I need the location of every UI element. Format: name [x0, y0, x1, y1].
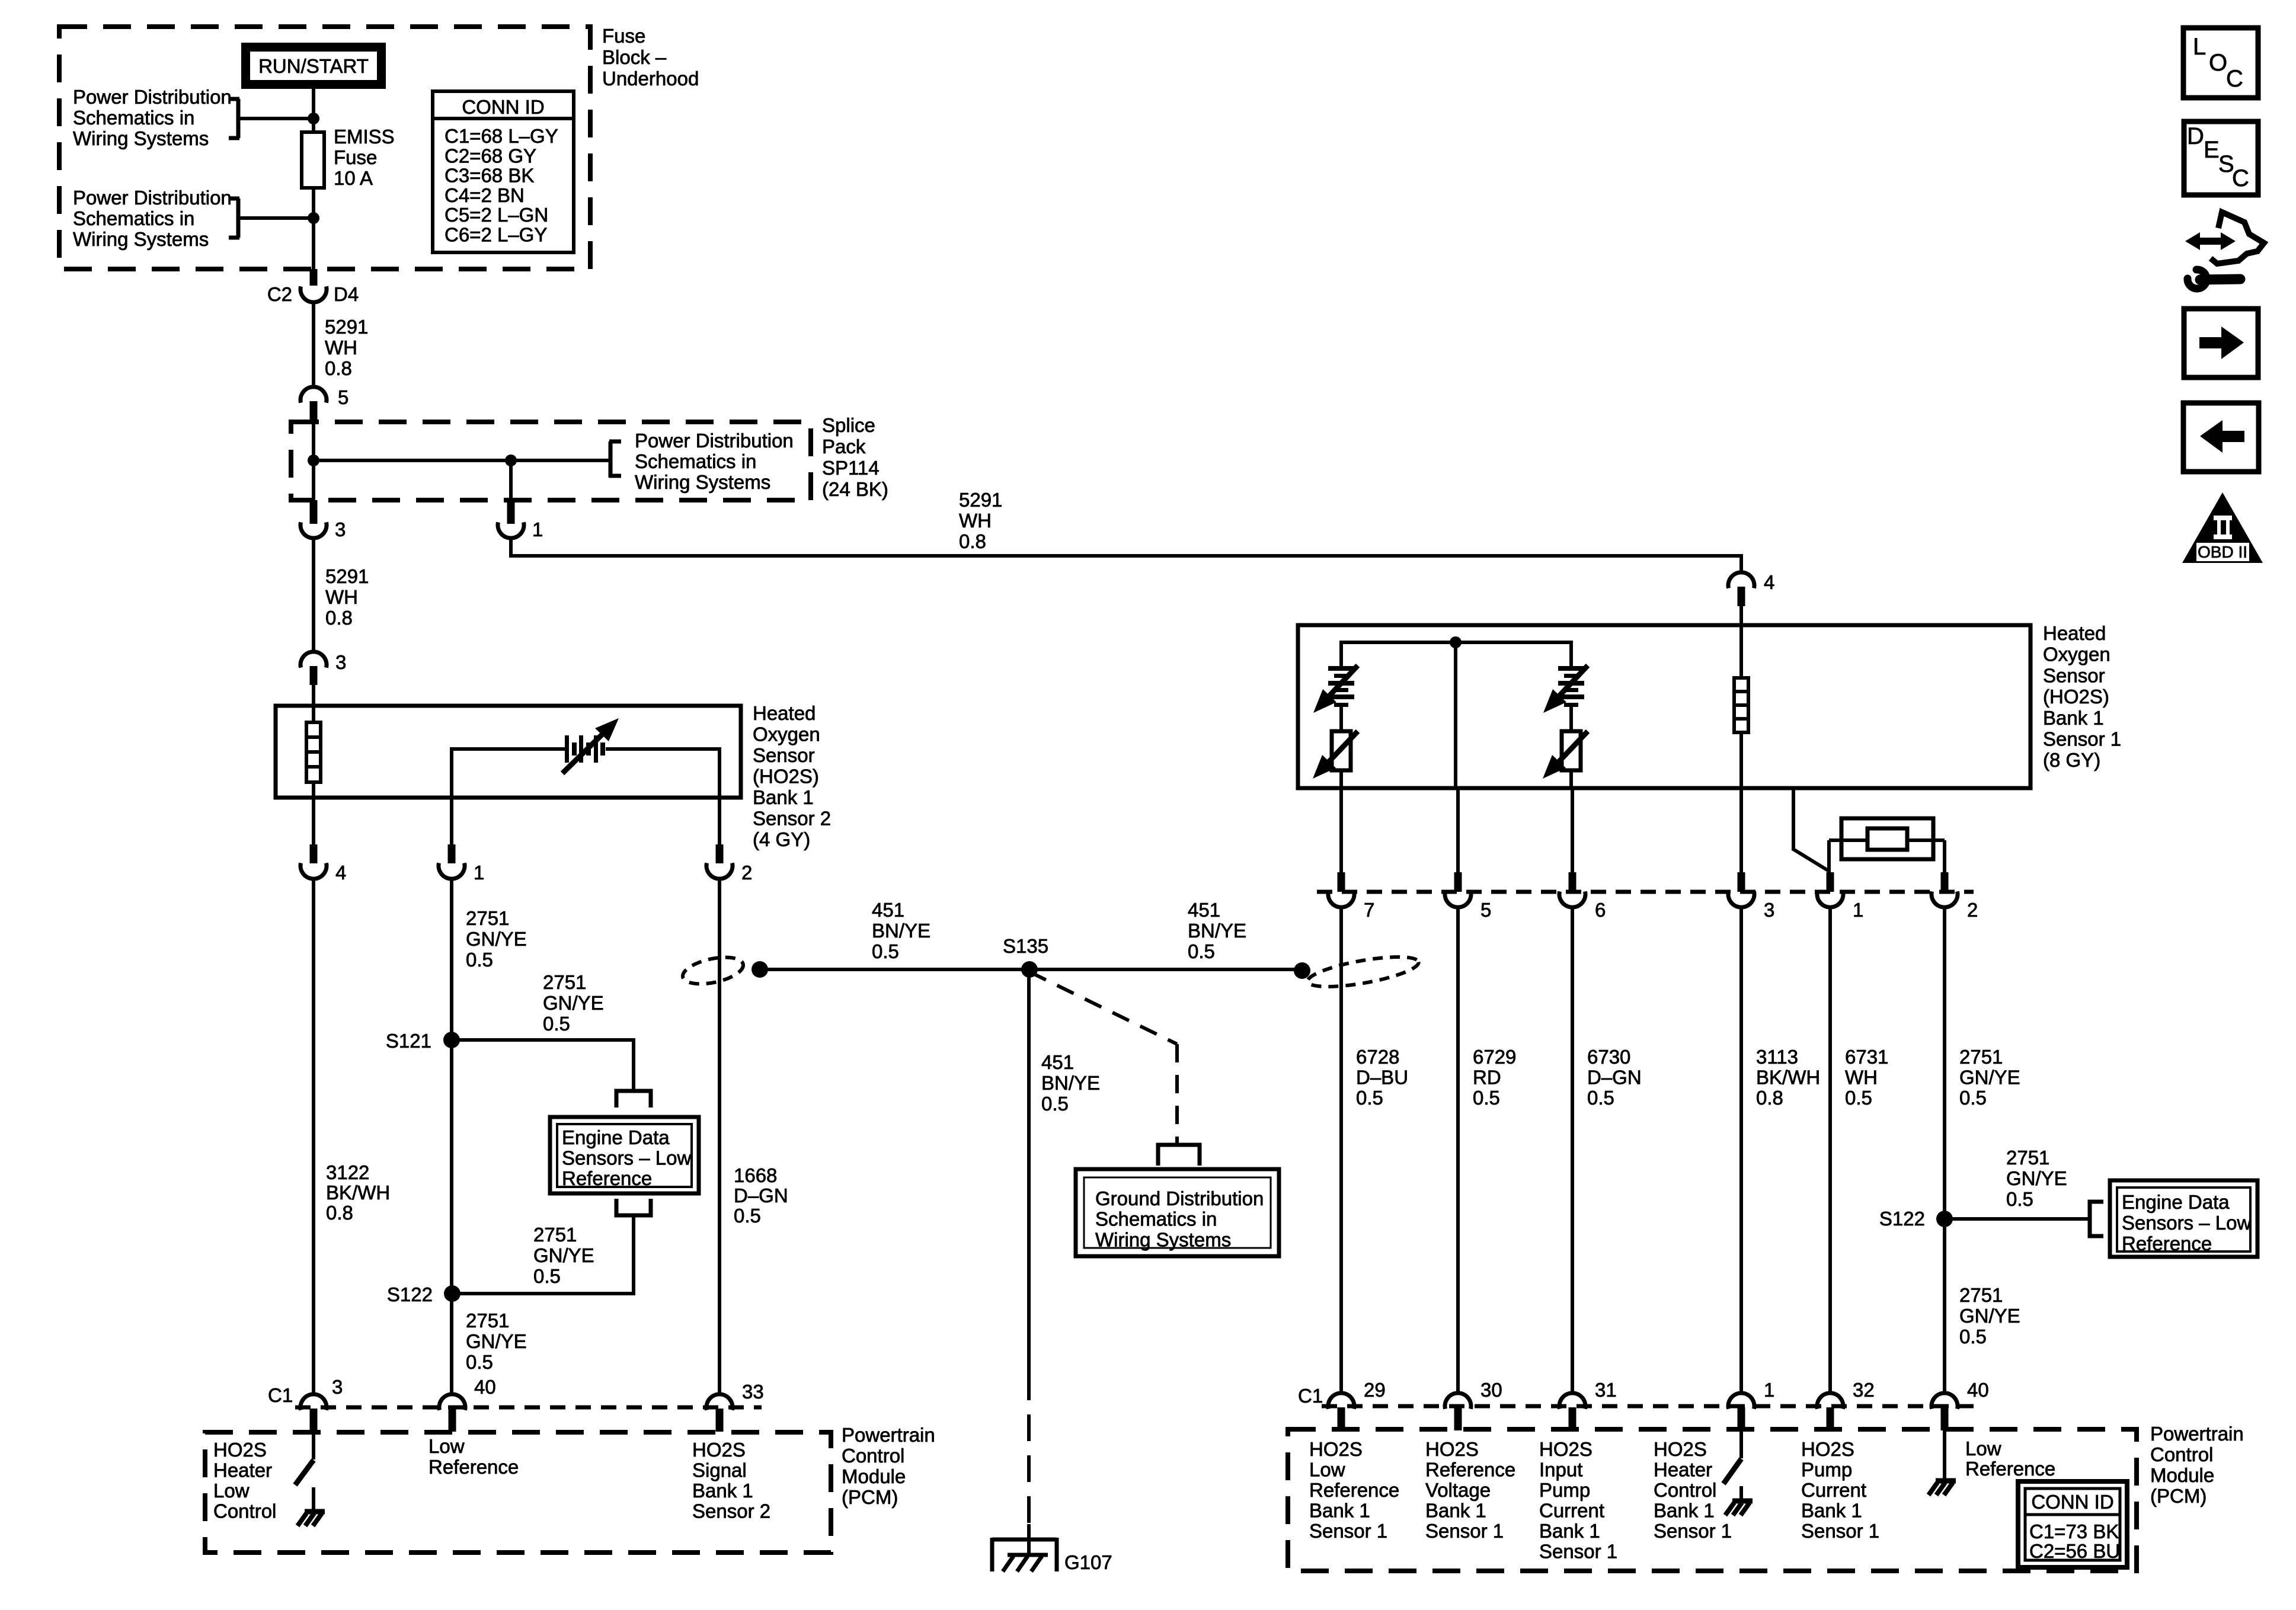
- svg-text:2751: 2751: [466, 1310, 509, 1331]
- label: 3 (left PCM pin): [332, 1376, 343, 1398]
- svg-text:Reference: Reference: [1309, 1479, 1399, 1501]
- svg-text:WH: WH: [959, 510, 992, 532]
- pin 3 stub (HO2S B1S2): [310, 666, 318, 685]
- fuse holder RUN/START box: [241, 43, 386, 89]
- wire 2751 GN/YE 0.5 (sensor2 low reference): [450, 879, 453, 1394]
- svg-text:6: 6: [1595, 899, 1606, 921]
- powertrain control module dashed enclosure (left): [205, 1432, 831, 1553]
- sensor cell with variable resistor (sensor 1, cavity 6): [1543, 665, 1588, 788]
- svg-text:C: C: [2226, 66, 2243, 92]
- pin 4 stub (HO2S B1S1): [1738, 587, 1745, 606]
- wire: S122 branch to engine data sensors (right): [1945, 1217, 2089, 1221]
- svg-text:Bank 1: Bank 1: [1654, 1500, 1715, 1522]
- svg-text:0.5: 0.5: [466, 1351, 493, 1373]
- label: 4 (sensor 2): [335, 862, 346, 884]
- connector cavity 1 (sensor 2): [439, 863, 465, 879]
- label: HO2S Signal Bank 1 Sensor 2: [692, 1439, 770, 1522]
- svg-text:S122: S122: [387, 1283, 433, 1305]
- switch: HO2S heater low control driver: [295, 1432, 314, 1510]
- connector C2 cavity D4: [300, 286, 327, 302]
- HO2S Bank 1 Sensor 2 enclosure: [276, 706, 741, 798]
- svg-text:HO2S: HO2S: [1654, 1438, 1707, 1460]
- svg-text:RUN/START: RUN/START: [258, 55, 369, 77]
- label: 6729 RD 0.5: [1473, 1046, 1516, 1109]
- wire 6731 WH 0.5 (to PCM pin 32): [1828, 907, 1832, 1394]
- label: 31 (right PCM pin): [1595, 1379, 1617, 1401]
- svg-text:Wiring Systems: Wiring Systems: [73, 127, 209, 149]
- svg-text:(HO2S): (HO2S): [2043, 686, 2109, 708]
- node: junction at lower power feed: [308, 212, 319, 224]
- label: 2751 GN/YE 0.5 (right branch): [2006, 1147, 2067, 1210]
- svg-text:Engine Data: Engine Data: [562, 1126, 670, 1148]
- wire: pin 4 into sensor body: [1739, 606, 1743, 625]
- bracket: power distribution tap (splice): [609, 441, 621, 478]
- node: splice junction left: [308, 454, 319, 466]
- svg-text:WH: WH: [1845, 1067, 1878, 1089]
- ground G107: [992, 1538, 1057, 1571]
- label: 6728 D–BU 0.5: [1356, 1046, 1408, 1109]
- svg-text:(24 BK): (24 BK): [822, 478, 888, 500]
- label: 5291 WH 0.8 (long run): [959, 489, 1002, 552]
- pin 32 stub (right PCM): [1827, 1407, 1834, 1430]
- svg-text:Powertrain: Powertrain: [842, 1424, 935, 1446]
- svg-text:Sensor 1: Sensor 1: [2043, 728, 2121, 750]
- svg-text:2751: 2751: [543, 971, 586, 993]
- svg-text:HO2S: HO2S: [1425, 1438, 1479, 1460]
- pin 5 stub: [310, 401, 318, 422]
- connector HO2S B1S2 cavity 3: [300, 652, 327, 668]
- label: Powertrain Control Module PCM (right): [2150, 1423, 2244, 1507]
- svg-text:C1=73 BK: C1=73 BK: [2029, 1521, 2119, 1542]
- label: HO2S Heater Control Bank 1 Sensor 1: [1654, 1438, 1732, 1542]
- label: Fuse Block - Underhood: [602, 25, 699, 89]
- svg-text:0.5: 0.5: [543, 1013, 570, 1035]
- svg-text:10 A: 10 A: [334, 167, 373, 189]
- label: Heated Oxygen Sensor (HO2S) Bank 1 Sensor 1 (8 GY): [2043, 622, 2121, 771]
- svg-text:6731: 6731: [1845, 1046, 1888, 1068]
- svg-text:451: 451: [872, 899, 904, 921]
- wire 6729 RD 0.5 (to PCM pin 30): [1456, 907, 1460, 1394]
- svg-text:Schematics in: Schematics in: [73, 107, 194, 129]
- label: 1 (splice): [532, 518, 543, 540]
- wire: RUN/START to fuse EMISS: [312, 89, 315, 132]
- svg-text:40: 40: [1967, 1379, 1989, 1401]
- svg-text:Sensors – Low: Sensors – Low: [562, 1147, 691, 1169]
- wire: pin 40 to internal ground: [1943, 1429, 1946, 1480]
- connector cavity 40 (left PCM): [439, 1394, 465, 1410]
- wire 451 BN/YE 0.5 (S135 to G107): [1027, 969, 1031, 1374]
- svg-text:D–GN: D–GN: [734, 1185, 788, 1206]
- connector HO2S B1S1 cavity 4: [1728, 572, 1754, 588]
- connector cavity 4 (sensor 2): [300, 863, 327, 879]
- wire 451 BN/YE 0.5 (right half): [1029, 968, 1302, 971]
- svg-text:Control: Control: [1654, 1479, 1716, 1501]
- svg-text:Sensor 1: Sensor 1: [1425, 1520, 1504, 1542]
- svg-text:3: 3: [332, 1376, 343, 1398]
- label: 2751 GN/YE 0.5 (below sensor 2): [466, 907, 527, 971]
- svg-text:D4: D4: [334, 283, 359, 305]
- svg-text:GN/YE: GN/YE: [466, 928, 527, 950]
- label: S121: [386, 1030, 431, 1052]
- pin D4 stub (fuse block C2): [310, 269, 318, 286]
- wire 1668 D-GN 0.5 (sensor 2 signal): [718, 879, 721, 1394]
- svg-text:HO2S: HO2S: [692, 1439, 746, 1461]
- svg-text:Low: Low: [1309, 1459, 1345, 1481]
- svg-text:C1: C1: [1298, 1385, 1323, 1407]
- wire: sensor 1 cavity 3 lead: [1739, 788, 1743, 873]
- svg-text:GN/YE: GN/YE: [2006, 1167, 2067, 1189]
- wire: bus junction to cavity 5: [1454, 642, 1457, 788]
- svg-text:Control: Control: [842, 1445, 904, 1467]
- svg-text:2: 2: [1967, 899, 1978, 921]
- pin 3 stub (left PCM): [310, 1409, 318, 1432]
- svg-text:Power Distribution: Power Distribution: [635, 430, 794, 452]
- label: 5 (sensor 1): [1480, 899, 1491, 921]
- label: C2: [267, 283, 292, 305]
- svg-text:Low: Low: [1965, 1438, 2001, 1459]
- splice crimp (left, dashed ellipse): [680, 953, 746, 989]
- svg-text:Heater: Heater: [213, 1459, 272, 1481]
- pin 1 stub (splice): [507, 500, 515, 524]
- svg-text:3: 3: [335, 518, 346, 540]
- svg-text:Control: Control: [213, 1500, 276, 1522]
- splice pack SP114 dashed enclosure: [291, 422, 811, 500]
- wire: S121 branch to engine data sensors: [452, 1038, 634, 1089]
- label: Power Distribution Schematics in Wiring Systems (upper): [73, 86, 232, 149]
- svg-text:WH: WH: [325, 586, 358, 608]
- label: 3 (sensor 1): [1764, 899, 1774, 921]
- svg-text:(4 GY): (4 GY): [753, 828, 810, 850]
- svg-text:HO2S: HO2S: [1309, 1438, 1363, 1460]
- svg-text:1: 1: [1853, 899, 1863, 921]
- label: 1668 D-GN 0.5: [734, 1164, 788, 1227]
- wire: fuse EMISS to fuse block exit: [312, 188, 315, 269]
- wire: splice pack internal vertical: [312, 422, 315, 500]
- label: 32 (right PCM pin): [1853, 1379, 1875, 1401]
- wire 5291 WH 0.8 (splice to HO2S bank1 sensor2): [312, 538, 315, 652]
- svg-text:C2=68 GY: C2=68 GY: [445, 145, 536, 167]
- svg-text:Block –: Block –: [602, 46, 667, 68]
- svg-text:6728: 6728: [1356, 1046, 1399, 1068]
- svg-text:Sensor 1: Sensor 1: [1801, 1520, 1879, 1542]
- label: 2 (sensor 2): [741, 862, 752, 884]
- pin stub (sensor 1 cavity 1): [1827, 872, 1834, 892]
- svg-text:0.5: 0.5: [1587, 1087, 1614, 1109]
- svg-text:Ground Distribution: Ground Distribution: [1095, 1188, 1264, 1209]
- svg-text:GN/YE: GN/YE: [1959, 1067, 2020, 1089]
- label: S122: [387, 1283, 433, 1305]
- svg-text:GN/YE: GN/YE: [543, 992, 604, 1014]
- connector cavity 3 (splice): [300, 522, 327, 538]
- engine data sensors - low reference box (right): [2110, 1180, 2257, 1257]
- svg-text:O: O: [2209, 50, 2227, 76]
- svg-text:Sensor 1: Sensor 1: [1654, 1520, 1732, 1542]
- sensor 1 connector row (dotted): [1317, 890, 1974, 894]
- svg-text:3: 3: [335, 651, 346, 673]
- svg-text:1: 1: [474, 862, 484, 884]
- svg-text:Reference: Reference: [1425, 1459, 1515, 1481]
- svg-text:Sensor 1: Sensor 1: [1309, 1520, 1387, 1542]
- wire 5291 WH 0.8 (splice to HO2S bank1 sensor1): [509, 538, 1743, 572]
- splice crimp (right, dashed ellipse): [1306, 951, 1421, 993]
- svg-text:31: 31: [1595, 1379, 1617, 1401]
- svg-text:7: 7: [1364, 899, 1374, 921]
- pin stub (sensor 1 cavity 3): [1738, 872, 1745, 892]
- label: S122 (right): [1879, 1208, 1925, 1230]
- svg-text:Sensors – Low: Sensors – Low: [2122, 1212, 2251, 1234]
- svg-text:Oxygen: Oxygen: [753, 724, 820, 745]
- svg-text:5: 5: [338, 386, 348, 408]
- svg-text:2751: 2751: [1959, 1046, 2003, 1068]
- svg-text:29: 29: [1364, 1379, 1386, 1401]
- svg-text:4: 4: [1764, 571, 1774, 593]
- svg-text:L: L: [2193, 34, 2206, 60]
- svg-text:2751: 2751: [1959, 1284, 2003, 1306]
- svg-text:30: 30: [1480, 1379, 1502, 1401]
- wire 3122 BK/WH 0.8 (heater low control): [312, 879, 315, 1394]
- svg-text:Bank 1: Bank 1: [692, 1480, 753, 1502]
- svg-text:Sensor: Sensor: [753, 744, 815, 766]
- svg-text:451: 451: [1188, 899, 1220, 921]
- svg-text:Oxygen: Oxygen: [2043, 644, 2110, 665]
- label: 451 BN/YE 0.5 (right): [1188, 899, 1246, 962]
- right PCM connector row (dotted): [1322, 1404, 1974, 1409]
- powertrain control module dashed enclosure (right): [1288, 1429, 2137, 1571]
- label: 7 (sensor 1): [1364, 899, 1374, 921]
- connector cavity 33 (left PCM): [706, 1394, 733, 1410]
- pin 1 stub (right PCM): [1738, 1407, 1745, 1430]
- svg-text:Heated: Heated: [2043, 622, 2106, 644]
- bracket: engine data sensors feed (right): [2090, 1202, 2103, 1236]
- pin 4 stub (sensor 2 heater low): [310, 798, 318, 863]
- connector cavity 1 (right PCM): [1728, 1393, 1754, 1409]
- ground distribution schematics box: [1076, 1169, 1279, 1256]
- label: Low Reference (right PCM): [1965, 1438, 2055, 1480]
- node: splice junction right: [505, 454, 517, 466]
- fuse EMISS 10 A: [302, 132, 324, 188]
- svg-text:BK/WH: BK/WH: [1756, 1067, 1820, 1089]
- connector cavity 2 (sensor 1): [1932, 891, 1958, 907]
- pin stub (sensor 1 cavity 6): [1569, 872, 1576, 892]
- svg-text:BN/YE: BN/YE: [872, 920, 930, 942]
- HO2S Bank 1 Sensor 1 enclosure: [1298, 625, 2030, 788]
- label: Power Distribution Schematics in Wiring Systems (lower): [73, 187, 232, 250]
- label: HO2S Heater Low Control: [213, 1439, 276, 1522]
- svg-text:C2=56 BU: C2=56 BU: [2029, 1540, 2120, 1562]
- svg-text:GN/YE: GN/YE: [533, 1244, 594, 1266]
- label: 2 (sensor 1): [1967, 899, 1978, 921]
- svg-text:0.8: 0.8: [326, 1202, 353, 1224]
- left PCM connector row (dotted): [295, 1406, 762, 1410]
- svg-text:D–BU: D–BU: [1356, 1067, 1408, 1089]
- svg-text:GN/YE: GN/YE: [466, 1330, 527, 1352]
- svg-text:0.5: 0.5: [1959, 1326, 1987, 1347]
- node S122 (right): [1936, 1211, 1953, 1227]
- svg-text:C6=2 L–GY: C6=2 L–GY: [445, 224, 547, 246]
- label: 2751 GN/YE 0.5: [1959, 1046, 2020, 1109]
- svg-text:EMISS: EMISS: [334, 126, 395, 148]
- connector cavity 6 (sensor 1): [1559, 891, 1585, 907]
- svg-text:0.5: 0.5: [2006, 1188, 2033, 1210]
- icon: next arrow box: [2184, 309, 2258, 377]
- switch: HO2S heater control driver (right): [1723, 1429, 1741, 1499]
- svg-text:Engine Data: Engine Data: [2122, 1191, 2230, 1213]
- label: 30 (right PCM pin): [1480, 1379, 1502, 1401]
- svg-text:33: 33: [742, 1381, 764, 1403]
- svg-text:0.8: 0.8: [325, 357, 352, 379]
- label: EMISS Fuse 10 A: [334, 126, 395, 189]
- icon: previous arrow box: [2183, 403, 2259, 472]
- svg-text:S121: S121: [386, 1030, 431, 1052]
- label: 1 (right PCM pin): [1764, 1379, 1774, 1401]
- svg-text:Reference: Reference: [1965, 1458, 2055, 1480]
- bracket: engine data sensors feed (top): [616, 1091, 651, 1108]
- svg-text:C1: C1: [268, 1384, 293, 1406]
- pin 40 stub (left PCM): [449, 1409, 456, 1432]
- icon: DESC box: [2184, 121, 2258, 195]
- svg-text:Low: Low: [213, 1480, 250, 1502]
- pin 33 stub (left PCM): [716, 1409, 724, 1432]
- svg-text:2751: 2751: [2006, 1147, 2049, 1169]
- svg-text:Bank 1: Bank 1: [1801, 1500, 1862, 1522]
- svg-text:451: 451: [1041, 1051, 1074, 1073]
- wire 2751 GN/YE 0.5 (to PCM pin 40): [1943, 907, 1946, 1394]
- label: Heated Oxygen Sensor (HO2S) Bank 1 Sensor 2 (4 GY): [753, 702, 831, 850]
- svg-text:C1=68 L–GY: C1=68 L–GY: [445, 125, 558, 147]
- svg-text:3113: 3113: [1756, 1046, 1798, 1068]
- wire: upper tap to main feed: [238, 117, 314, 120]
- wire 6730 D–GN 0.5 (to PCM pin 31): [1571, 907, 1574, 1394]
- connector cavity 3 (left PCM): [300, 1394, 327, 1410]
- svg-text:3122: 3122: [326, 1161, 369, 1183]
- wire: splice bus: [314, 459, 609, 462]
- node: crimp junction left: [752, 961, 768, 978]
- svg-text:Sensor: Sensor: [2043, 664, 2105, 686]
- bracket: ground distribution feed: [1158, 1145, 1200, 1166]
- label: C1 (right PCM): [1298, 1385, 1323, 1407]
- icon: OBD II triangle: [2182, 492, 2263, 563]
- label: 5291 WH 0.8 (upper): [325, 316, 368, 379]
- svg-text:0.5: 0.5: [872, 940, 899, 962]
- svg-text:Pump: Pump: [1801, 1459, 1852, 1481]
- svg-text:Pump: Pump: [1539, 1479, 1590, 1501]
- node S121: [443, 1032, 460, 1048]
- connector cavity 30 (right PCM): [1445, 1393, 1471, 1409]
- label: 5291 WH 0.8 (left branch): [325, 565, 369, 629]
- svg-text:Power Distribution: Power Distribution: [73, 187, 232, 209]
- svg-text:6729: 6729: [1473, 1046, 1516, 1068]
- svg-text:Pack: Pack: [822, 436, 866, 457]
- label: 3113 BK/WH 0.8: [1756, 1046, 1820, 1109]
- bracket: lower power distribution tap: [229, 199, 239, 238]
- svg-text:Power Distribution: Power Distribution: [73, 86, 232, 108]
- pin 30 stub (right PCM): [1454, 1407, 1462, 1430]
- wire: lower tap to main feed: [238, 216, 314, 220]
- label: 29 (right PCM pin): [1364, 1379, 1386, 1401]
- wire 3113 BK/WH 0.8 (to PCM pin 1): [1739, 907, 1743, 1394]
- label: Power Distribution Schematics in Wiring Systems (splice): [635, 430, 794, 493]
- svg-text:0.8: 0.8: [959, 530, 986, 552]
- label: Powertrain Control Module PCM (left): [842, 1424, 935, 1508]
- engine data sensors - low reference box (left): [550, 1117, 699, 1193]
- pin 40 stub (right PCM): [1941, 1407, 1949, 1430]
- wire 6728 D–BU 0.5 (to PCM pin 29): [1339, 907, 1343, 1394]
- pin 31 stub (right PCM): [1569, 1407, 1576, 1430]
- svg-text:0.5: 0.5: [1188, 940, 1215, 962]
- heater element (pin strip) HO2S B1S2: [306, 706, 321, 798]
- svg-text:Module: Module: [842, 1465, 906, 1487]
- connector cavity 1 (splice): [498, 522, 524, 538]
- pin 29 stub (right PCM): [1338, 1407, 1345, 1430]
- svg-text:Sensor 2: Sensor 2: [692, 1500, 770, 1522]
- label: S135: [1003, 935, 1048, 957]
- pin 2 stub (sensor 2 signal): [716, 798, 724, 863]
- svg-text:Fuse: Fuse: [334, 146, 377, 168]
- svg-text:HO2S: HO2S: [1539, 1438, 1593, 1460]
- svg-text:Bank 1: Bank 1: [1539, 1520, 1600, 1542]
- svg-text:GN/YE: GN/YE: [1959, 1305, 2020, 1327]
- connector splice pack cavity 5: [300, 387, 327, 403]
- svg-text:2751: 2751: [466, 907, 509, 929]
- connector cavity 40 (right PCM): [1932, 1393, 1958, 1409]
- label: HO2S Reference Voltage Bank 1 Sensor 1: [1425, 1438, 1515, 1542]
- svg-text:HO2S: HO2S: [213, 1439, 267, 1461]
- svg-text:RD: RD: [1473, 1067, 1501, 1089]
- connector cavity 32 (right PCM): [1817, 1393, 1843, 1409]
- wire: sensor 1 internal bus: [1341, 641, 1571, 666]
- svg-text:6730: 6730: [1587, 1046, 1630, 1068]
- bracket: engine data sensors feed (bottom): [616, 1199, 651, 1215]
- label: D4: [334, 283, 359, 305]
- pin 1 stub (sensor 2 low ref): [448, 798, 456, 863]
- svg-text:0.5: 0.5: [1041, 1093, 1069, 1115]
- svg-text:1668: 1668: [734, 1164, 777, 1186]
- ground (right PCM internal, heater): [1725, 1501, 1753, 1515]
- pin 3 stub (splice): [310, 500, 318, 524]
- svg-text:0.5: 0.5: [1845, 1087, 1872, 1109]
- svg-text:BN/YE: BN/YE: [1188, 920, 1246, 942]
- label: HO2S Low Reference Bank 1 Sensor 1: [1309, 1438, 1399, 1542]
- svg-text:C5=2 L–GN: C5=2 L–GN: [445, 204, 548, 226]
- svg-text:Current: Current: [1801, 1479, 1866, 1501]
- svg-text:SP114: SP114: [822, 457, 880, 479]
- icon: LOC box: [2183, 28, 2258, 98]
- node S135: [1021, 961, 1038, 978]
- svg-text:C3=68 BK: C3=68 BK: [445, 165, 534, 187]
- svg-text:C: C: [2232, 165, 2249, 191]
- svg-text:Sensor 2: Sensor 2: [753, 808, 831, 830]
- svg-text:Heated: Heated: [753, 702, 816, 724]
- connector table CONN ID (right PCM): [2018, 1481, 2127, 1567]
- label: 4 (HO2S B1S1): [1764, 571, 1774, 593]
- svg-text:(HO2S): (HO2S): [753, 766, 819, 788]
- svg-text:5291: 5291: [325, 316, 368, 338]
- label: G107: [1064, 1551, 1112, 1573]
- svg-text:S135: S135: [1003, 935, 1048, 957]
- svg-text:Underhood: Underhood: [602, 68, 699, 89]
- svg-text:Splice: Splice: [822, 414, 875, 436]
- svg-text:WH: WH: [325, 337, 357, 359]
- svg-text:Voltage: Voltage: [1425, 1479, 1491, 1501]
- connector table CONN ID (fuse block): [433, 91, 574, 252]
- svg-text:Bank 1: Bank 1: [1425, 1500, 1486, 1522]
- pin stub (sensor 1 cavity 5): [1454, 872, 1462, 892]
- label: HO2S Pump Current Bank 1 Sensor 1: [1801, 1438, 1879, 1542]
- svg-text:5291: 5291: [959, 489, 1002, 511]
- svg-text:0.5: 0.5: [466, 949, 493, 971]
- svg-text:0.5: 0.5: [533, 1265, 561, 1287]
- svg-text:CONN ID: CONN ID: [2031, 1491, 2113, 1513]
